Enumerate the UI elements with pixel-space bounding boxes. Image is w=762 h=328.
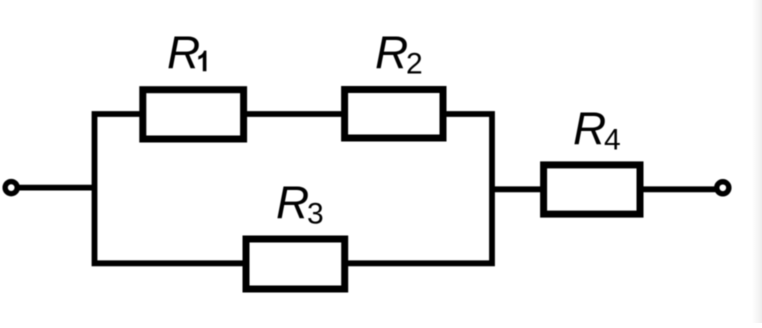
- right edge shading: [752, 0, 762, 323]
- svg-text:2: 2: [406, 47, 423, 80]
- svg-text:4: 4: [604, 123, 621, 156]
- svg-text:R: R: [573, 102, 606, 154]
- svg-text:R: R: [375, 26, 408, 78]
- wire: input lead from left terminal to left node: [16, 185, 95, 191]
- svg-text:R: R: [276, 176, 309, 228]
- terminal: left input node: [5, 182, 17, 194]
- wire: top branch between R1 and R2: [241, 111, 348, 117]
- wire: right branch riser (top-right and bottom-right corners): [341, 114, 492, 263]
- resistor R1: [143, 90, 244, 139]
- wire: output lead from R4 to right terminal: [638, 186, 716, 192]
- wire: middle lead from right node to R4: [492, 186, 546, 192]
- svg-text:3: 3: [307, 197, 324, 230]
- svg-text:R: R: [167, 26, 200, 78]
- resistor R3: [246, 239, 345, 289]
- terminal: right output node: [717, 182, 729, 194]
- wire: left branch riser (top-left and bottom-left corners): [95, 114, 250, 263]
- resistor R2: [345, 90, 443, 139]
- resistor R4: [544, 165, 640, 214]
